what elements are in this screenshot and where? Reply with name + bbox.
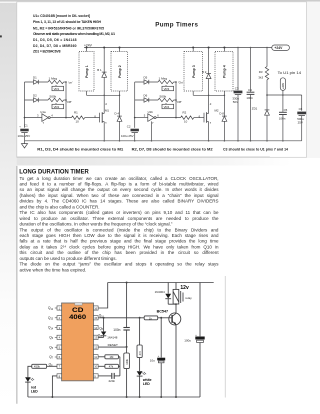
wire pump2 bottom	[119, 91, 121, 95]
row1 ch1 wire	[25, 81, 49, 83]
pot VR1 1 Meg	[48, 77, 66, 91]
svg-text:M1, M2 = IRF510/IRF540 or IRL3: M1, M2 = IRF510/IRF540 or IRL3705/IRF370…	[33, 26, 104, 30]
svg-text:10u: 10u	[150, 359, 155, 363]
wire pump3 bottom	[192, 91, 194, 95]
svg-text:Pump Timers: Pump Timers	[155, 21, 198, 28]
svg-text:and feed it to a number of fli: and feed it to a number of flip-flops. A…	[20, 182, 220, 187]
svg-text:100n: 100n	[246, 96, 253, 100]
wire 1M to junction	[118, 356, 120, 358]
svg-text:'on': 'on'	[68, 80, 73, 84]
svg-text:ZD1: ZD1	[252, 107, 258, 111]
svg-text:100u: 100u	[184, 338, 191, 342]
svg-text:1N4004: 1N4004	[155, 290, 166, 294]
wire Q10 pin15 to base resistor	[98, 317, 144, 319]
white LED	[137, 371, 152, 386]
wire pump1 top	[86, 48, 88, 52]
node reset	[126, 346, 128, 348]
diode 1N4148 jam	[101, 317, 118, 340]
svg-text:100k: 100k	[125, 358, 129, 364]
wire 100u branch	[199, 283, 201, 337]
node rows ch2	[175, 82, 177, 118]
black speck left edge	[0, 35, 2, 37]
svg-text:1 Meg: 1 Meg	[49, 77, 58, 81]
svg-text:To U1 pin 14: To U1 pin 14	[278, 71, 302, 75]
wire 450k to red led	[28, 366, 32, 377]
svg-text:Pins 1, 3, 11, 13 of U1 should: Pins 1, 3, 11, 13 of U1 should be TAKEN …	[33, 20, 102, 24]
svg-text:'On': 'On'	[178, 80, 184, 84]
left pin labels	[48, 306, 54, 367]
resistor 1k base	[144, 316, 158, 320]
svg-text:falls at a rate that is half t: falls at a rate that is half the previou…	[20, 239, 219, 244]
pot VR2 500k	[48, 94, 66, 109]
svg-text:(halves) the input signal. Whe: (halves) the input signal. When two of t…	[20, 193, 219, 198]
svg-text:D2: D2	[33, 94, 37, 98]
row1 ch2 wire	[135, 81, 158, 83]
svg-text:R1, D3, D4 should be mounted c: R1, D3, D4 should be mounted close to M1	[37, 147, 123, 151]
svg-text:B 2: B 2	[202, 70, 207, 74]
wire pin9 stub	[98, 375, 111, 377]
svg-text:+24V: +24V	[84, 43, 93, 47]
svg-text:relay: relay	[185, 296, 192, 300]
wire red led lower	[27, 382, 29, 397]
svg-text:VR4: VR4	[164, 105, 170, 109]
capacitor C1	[18, 124, 31, 141]
resistor 470 vertical	[137, 345, 142, 358]
svg-text:10: 10	[76, 120, 80, 124]
lower panel bottom border	[17, 403, 293, 405]
wire U1a out	[50, 117, 71, 119]
diode D8	[219, 95, 226, 141]
capacitor 10u	[150, 355, 165, 363]
pin boxes left	[57, 306, 62, 378]
wire pin16 to +12v rail	[98, 283, 108, 309]
left pin label stubs	[55, 308, 57, 357]
wire 1k to base	[158, 317, 169, 319]
scan fold line (decorative)	[224, 276, 226, 398]
wire pin8 to rail	[52, 376, 57, 397]
diode D1	[33, 76, 38, 85]
wire pump2 top	[119, 48, 121, 52]
svg-text:12v: 12v	[180, 285, 189, 291]
node wire right	[267, 94, 302, 96]
bottom rail 0V	[25, 140, 302, 142]
wire white led branch upper	[139, 318, 141, 345]
wire pin10 stub	[98, 365, 105, 367]
gate U1b	[144, 110, 159, 125]
svg-text:100n: 100n	[113, 328, 120, 332]
diode D4	[115, 95, 122, 141]
svg-text:D 4: D 4	[115, 112, 120, 116]
svg-text:so an input signal will change: so an input signal will change the outpu…	[20, 187, 220, 192]
svg-text:D5: D5	[144, 76, 148, 80]
svg-text:Pump 4: Pump 4	[223, 65, 227, 78]
+24V rail	[84, 47, 272, 49]
svg-text:LED: LED	[31, 389, 38, 393]
diode D7 flyback ch2	[202, 48, 211, 97]
svg-text:13: 13	[94, 336, 97, 340]
svg-text:12: 12	[94, 346, 97, 350]
capacitor C5	[279, 95, 288, 141]
left grey margin	[0, 0, 17, 406]
right grey margin upper	[307, 2, 320, 158]
resistor R3	[258, 47, 268, 95]
svg-text:The IC also has components (ca: The IC also has components (called gates…	[20, 210, 220, 215]
pin numbers	[59, 306, 98, 378]
capacitor 220n	[109, 373, 116, 383]
svg-text:outputs can be used to produce: outputs can be used to produce different…	[20, 256, 117, 261]
svg-text:C6: C6	[299, 107, 303, 111]
bottom rail 0v	[28, 396, 200, 398]
svg-text:500k: 500k	[50, 94, 57, 98]
svg-text:10: 10	[94, 365, 97, 369]
svg-text:C1: C1	[24, 124, 28, 128]
svg-text:50V: 50V	[233, 100, 238, 104]
wire relay bottom to collector	[168, 304, 176, 313]
svg-text:wired to produce an oscillator: wired to produce an oscillator. Three ex…	[20, 216, 220, 221]
left rail ch1	[24, 82, 26, 128]
svg-text:C3: C3	[235, 86, 239, 90]
svg-text:4060: 4060	[69, 314, 86, 321]
svg-text:100u 25V: 100u 25V	[121, 134, 134, 138]
capacitor C4	[246, 47, 254, 141]
svg-text:BC547: BC547	[157, 309, 168, 313]
svg-text:R2: R2	[183, 111, 187, 115]
capacitor C3	[232, 47, 242, 141]
wire to white LED	[139, 358, 141, 371]
svg-text:220n: 220n	[109, 379, 116, 383]
net flag +24V pill	[272, 45, 290, 50]
svg-text:10: 10	[184, 120, 188, 124]
svg-text:3k3: 3k3	[258, 75, 263, 79]
svg-text:1N4148: 1N4148	[107, 335, 118, 339]
wire U1b out	[156, 117, 181, 119]
svg-text:'Off': 'Off'	[177, 100, 183, 104]
svg-text:D1, D3, D5, D6 = 1N4148: D1, D3, D5, D6 = 1N4148	[33, 38, 77, 42]
svg-text:active when the time has expir: active when the time has expired.	[20, 267, 87, 272]
svg-text:To get a long duration timer w: To get a long duration timer we can crea…	[20, 176, 219, 181]
node rail-reset riser	[126, 282, 128, 284]
wire pump1 bottom	[86, 91, 88, 95]
capacitor C2	[121, 124, 139, 140]
wire 100u lower	[199, 343, 201, 397]
svg-text:CD: CD	[72, 307, 84, 314]
pot VR4 500k	[158, 94, 176, 109]
row2 ch1 wire	[25, 99, 49, 101]
resistor 47k	[105, 364, 119, 368]
svg-text:U1b: U1b	[148, 110, 154, 114]
svg-text:ZD1 = BZX84C6V8: ZD1 = BZX84C6V8	[33, 50, 61, 54]
zener ZD1	[252, 95, 270, 141]
svg-text:470: 470	[138, 351, 142, 356]
wire R1 to gate	[85, 117, 100, 119]
svg-text:Pump 3: Pump 3	[192, 65, 196, 78]
wire pin12 reset	[98, 346, 126, 348]
resistor 1M	[105, 355, 119, 359]
wire white led lower	[139, 376, 141, 397]
capacitor C6	[297, 95, 306, 141]
wire +12v top rail	[108, 282, 214, 284]
wire reset riser lower	[126, 369, 128, 397]
rail dots	[103, 140, 283, 142]
capacitor 100n (POR)	[113, 328, 130, 332]
IC U1 CD4060	[62, 303, 94, 381]
resistor 100k vertical	[124, 353, 130, 369]
wire pump3 top	[192, 48, 194, 52]
svg-text:'Off': 'Off'	[67, 100, 73, 104]
ground	[21, 141, 27, 148]
svg-text:divides by 4. The CD4060 IC ha: divides by 4. The CD4060 IC has 14 stage…	[20, 199, 219, 204]
svg-text:500k: 500k	[160, 94, 167, 98]
svg-text:15: 15	[94, 316, 97, 320]
svg-text:16: 16	[94, 306, 97, 310]
svg-text:VR1: VR1	[54, 87, 60, 91]
svg-text:+24V: +24V	[281, 83, 285, 89]
svg-text:RESET: RESET	[108, 343, 118, 347]
wire pin7 stub	[47, 365, 57, 367]
svg-text:this circuit and the outline o: this circuit and the outline of the chip…	[20, 250, 220, 255]
svg-text:C5: C5	[284, 108, 288, 112]
svg-text:Pump 2: Pump 2	[118, 65, 122, 78]
svg-text:LED: LED	[143, 382, 150, 386]
wire 47k to junction	[118, 365, 120, 367]
pump 4 box	[215, 52, 233, 92]
svg-text:M1: M1	[105, 109, 109, 113]
svg-text:VR3: VR3	[164, 87, 170, 91]
wire reset riser mid	[126, 330, 128, 353]
upper panel	[17, 2, 307, 158]
svg-text:C4: C4	[248, 88, 252, 92]
wire U1b stub to rail	[151, 121, 153, 140]
diode D2r	[33, 94, 38, 103]
svg-text:D1: D1	[33, 76, 37, 80]
wire input U1a	[25, 117, 42, 119]
svg-text:duration of the oscillations.: duration of the oscillations. In other w…	[20, 222, 173, 227]
transistor Q1 BC547	[157, 309, 181, 325]
svg-text:C2: C2	[127, 124, 131, 128]
wire emitter down	[175, 325, 177, 398]
net flag U1 pill	[280, 78, 285, 96]
rail junction dots	[51, 396, 53, 398]
wire pump4 top	[223, 48, 225, 52]
left rail ch2	[134, 82, 136, 128]
svg-text:R3: R3	[259, 70, 263, 74]
svg-text:U1= CD4016B [mount in DIL sock: U1= CD4016B [mount in DIL socket]	[33, 14, 90, 18]
diode D6	[144, 94, 149, 103]
svg-text:+24V: +24V	[274, 46, 283, 50]
svg-text:The output of the oscillator i: The output of the oscillator is connecte…	[20, 227, 219, 232]
node white led branch	[139, 317, 141, 319]
svg-text:delay as it takes 2¹⁴ clock cy: delay as it takes 2¹⁴ clock cycles befor…	[20, 244, 219, 249]
red LED	[25, 377, 38, 393]
diode 1N4004	[155, 283, 172, 305]
svg-text:100u 25V: 100u 25V	[18, 134, 31, 138]
svg-text:D 8: D 8	[219, 112, 224, 116]
pot VR3 1 Meg	[158, 77, 176, 91]
svg-text:R2, D7, D8 should be mounted c: R2, D7, D8 should be mounted close to M2	[132, 147, 213, 151]
wire 220n to junction	[115, 375, 120, 377]
relay coil	[173, 283, 192, 305]
band between panels	[17, 157, 292, 165]
svg-text:U1a: U1a	[40, 110, 46, 114]
svg-text:C3 should be close to U1 pins: C3 should be close to U1 pins 7 and 14	[223, 147, 288, 151]
pump 1 box	[79, 52, 94, 92]
svg-text:M2: M2	[215, 109, 219, 113]
upper panel bottom shadow	[17, 156, 270, 159]
svg-text:1 Meg: 1 Meg	[159, 77, 168, 81]
mosfet M1	[94, 95, 109, 141]
wire drain bus ch1	[87, 94, 120, 96]
svg-text:450k: 450k	[34, 365, 41, 369]
wire reset riser upper	[126, 283, 128, 328]
wire 10u branch upper	[160, 318, 162, 358]
svg-text:Observe anti static precaution: Observe anti static precautions when han…	[33, 32, 115, 36]
wire pin13 stub	[98, 336, 103, 338]
gate U1a	[37, 110, 53, 125]
pump 3 box	[184, 52, 203, 92]
diode D2 flyback ch1	[97, 48, 106, 97]
row2 ch2 wire	[135, 99, 158, 101]
svg-text:VR2: VR2	[54, 105, 60, 109]
resistor R2	[181, 111, 194, 124]
svg-text:LONG DURATION TIMER: LONG DURATION TIMER	[19, 170, 89, 176]
node rows ch1	[65, 82, 67, 118]
svg-text:B 1: B 1	[97, 68, 102, 72]
svg-text:47k: 47k	[109, 365, 114, 369]
wire drain bus ch2	[193, 94, 224, 96]
wire 10u lower	[160, 363, 162, 397]
wire input U1b	[135, 117, 148, 119]
svg-text:D6: D6	[144, 94, 148, 98]
resistor 450k	[32, 364, 47, 368]
lower panel white	[17, 166, 320, 404]
wire pump4 bottom	[223, 91, 225, 95]
svg-text:100n: 100n	[279, 116, 286, 120]
pin boxes right	[94, 306, 99, 378]
svg-text:D2, D4, D7, D8 = MBR360: D2, D4, D7, D8 = MBR360	[33, 44, 77, 48]
resistor R1	[72, 111, 85, 124]
svg-text:each stage goes HIGH then LOW: each stage goes HIGH then LOW due to the…	[20, 233, 220, 238]
wire osc junction vertical	[119, 357, 121, 376]
diode D5	[144, 76, 149, 85]
mosfet M2	[199, 95, 219, 141]
svg-text:25V: 25V	[298, 121, 303, 125]
svg-text:The diode on the output “jams”: The diode on the output “jams” the oscil…	[20, 262, 220, 267]
svg-text:1M: 1M	[110, 355, 115, 359]
lower panel top border	[17, 165, 271, 167]
lower panel left border	[16, 166, 18, 404]
svg-text:and the chip is also called a: and the chip is also called a COUNTER.	[20, 204, 100, 209]
wire pin11 stub	[98, 356, 105, 358]
svg-text:14: 14	[94, 326, 97, 330]
node base 10u branch	[160, 317, 162, 319]
svg-text:R1: R1	[74, 111, 78, 115]
top grey band	[0, 0, 320, 3]
wire R2 to gate	[194, 117, 204, 119]
capacitor 100u	[184, 334, 204, 343]
pump 2 box	[111, 52, 128, 92]
svg-text:Pump 1: Pump 1	[85, 65, 89, 78]
